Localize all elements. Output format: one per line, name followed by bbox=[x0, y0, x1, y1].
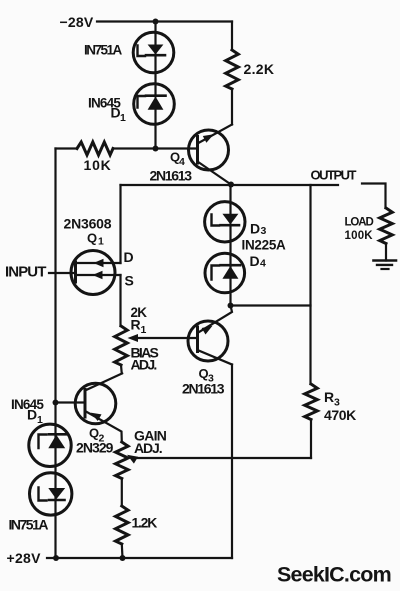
transistor Q1 FET circle bbox=[71, 251, 115, 295]
diode 1N751A zener L mark bbox=[138, 46, 146, 57]
svg-text:INPUT: INPUT bbox=[5, 264, 46, 281]
svg-text:2N3608: 2N3608 bbox=[64, 216, 112, 232]
diode D3 chain wire bbox=[229, 185, 231, 214]
svg-text:Q: Q bbox=[87, 231, 97, 246]
svg-text:3: 3 bbox=[261, 225, 267, 237]
transistor Q2 emitter lead bbox=[85, 411, 122, 442]
svg-text:D: D bbox=[250, 253, 260, 269]
svg-text:IN751A: IN751A bbox=[84, 43, 123, 58]
wire output line bbox=[121, 184, 339, 186]
svg-text:Q: Q bbox=[199, 366, 209, 381]
svg-text:S: S bbox=[125, 273, 134, 289]
transistor Q1 channel top bar / drain bbox=[78, 262, 121, 264]
node output junction dot bbox=[228, 182, 234, 188]
svg-text:100K: 100K bbox=[345, 230, 374, 242]
svg-text:ADJ.: ADJ. bbox=[131, 357, 157, 373]
wire 10K to Q4 base bbox=[113, 147, 198, 149]
wire top chain vertical bbox=[154, 22, 156, 34]
transistor Q1 channel bottom bar / source bbox=[78, 274, 121, 276]
transistor Q4 collector lead bbox=[198, 162, 232, 185]
wire Q2 base bbox=[56, 401, 86, 403]
diode 1N645 D1 symbol triangle up bbox=[148, 97, 164, 110]
node GAIN wiper arrow bbox=[127, 455, 138, 464]
transistor Q3 base bar bbox=[196, 327, 199, 352]
wire between top diodes bbox=[154, 55, 156, 97]
svg-text:1.2K: 1.2K bbox=[132, 515, 158, 531]
wire output down right branch bbox=[309, 185, 311, 384]
svg-text:1: 1 bbox=[98, 236, 104, 248]
svg-text:1: 1 bbox=[37, 414, 43, 426]
wire top chain to base rail bbox=[154, 110, 156, 149]
wire D3 to D4 bbox=[229, 225, 231, 268]
transistor Q1 top arrow bbox=[94, 259, 104, 268]
svg-text:1: 1 bbox=[120, 112, 126, 124]
svg-text:R: R bbox=[324, 389, 334, 405]
svg-text:Q: Q bbox=[89, 426, 99, 441]
svg-text:R: R bbox=[131, 317, 141, 333]
wire source down bbox=[119, 275, 121, 326]
svg-text:10K: 10K bbox=[84, 157, 112, 173]
diode 1N751A wire through bbox=[154, 33, 156, 45]
transistor Q2 base bar bbox=[84, 390, 87, 418]
transistor Q2 emitter arrow bbox=[91, 413, 102, 421]
diode D4 circle bbox=[205, 253, 245, 293]
diode 1N751A cathode bar bbox=[49, 499, 65, 502]
diode 1N751A symbol triangle down bbox=[48, 488, 65, 499]
transistor Q3 emitter lead bbox=[198, 306, 233, 334]
resistor LOAD 100K bbox=[380, 208, 393, 244]
wire load to ground bbox=[385, 244, 387, 261]
svg-text:D: D bbox=[111, 105, 121, 121]
wire GAIN bottom to 1.2K bbox=[121, 479, 123, 507]
svg-text:−28V: −28V bbox=[60, 14, 94, 30]
transistor Q4 emitter arrow bbox=[203, 134, 214, 142]
wire R3 bottom to wiper line bbox=[310, 420, 312, 459]
transistor Q2 circle bbox=[75, 383, 116, 424]
svg-text:2N329: 2N329 bbox=[76, 440, 114, 456]
diode D3 symbol triangle down bbox=[222, 214, 238, 225]
svg-text:D: D bbox=[250, 221, 260, 237]
diode 1N645 D1 (left) circle bbox=[29, 424, 71, 466]
svg-text:ADJ.: ADJ. bbox=[134, 440, 162, 456]
diode D1 cathode bar bbox=[49, 433, 66, 436]
wire 2.2K to Q4 emitter bbox=[231, 89, 233, 125]
diode 1N751A cathode bar bbox=[146, 54, 165, 57]
wire R1 wiper to Q3 base bbox=[138, 337, 198, 339]
wire -28V top rail bbox=[97, 20, 232, 22]
svg-text:SeekIC.com: SeekIC.com bbox=[277, 563, 391, 587]
svg-text:IN225A: IN225A bbox=[242, 238, 287, 253]
svg-text:470K: 470K bbox=[324, 407, 356, 423]
resistor 1.2K bbox=[116, 506, 129, 544]
transistor Q1 bottom arrow bbox=[93, 271, 103, 280]
resistor R3 470K bbox=[305, 384, 318, 420]
diode D3 circle bbox=[205, 202, 245, 242]
diode D4 symbol triangle up bbox=[222, 266, 238, 279]
wire drain up to output line bbox=[119, 185, 121, 263]
diode 1N645 cathode bar bbox=[146, 94, 166, 97]
diode 1N645 D1 (top) circle bbox=[134, 84, 175, 125]
svg-text:2N1613: 2N1613 bbox=[182, 381, 225, 397]
svg-text:LOAD: LOAD bbox=[345, 217, 374, 229]
svg-text:1: 1 bbox=[141, 324, 147, 336]
resistor R1 2K potentiometer bbox=[115, 326, 128, 365]
transistor Q3 collector lead bbox=[198, 350, 233, 365]
wire input bbox=[49, 272, 76, 274]
svg-text:2.2K: 2.2K bbox=[244, 61, 275, 77]
resistor GAIN potentiometer bbox=[116, 442, 129, 479]
transistor Q4 base bar bbox=[196, 137, 199, 164]
diode 1N751A (top) circle bbox=[133, 32, 174, 73]
diode 1N751A zener L mark bbox=[39, 488, 47, 501]
svg-text:4: 4 bbox=[260, 258, 266, 270]
diode 1N645 zener G mark bbox=[138, 96, 146, 108]
transistor Q3 circle bbox=[188, 321, 228, 361]
transistor Q1 gate bar bbox=[74, 262, 77, 282]
diode 1N751A (left) circle bbox=[30, 473, 72, 515]
wire +28V rail bbox=[47, 557, 232, 559]
wire 1.2K to +28V rail bbox=[121, 544, 124, 558]
diode D3 zener L mark bbox=[212, 215, 220, 226]
svg-text:+28V: +28V bbox=[7, 550, 42, 566]
transistor Q4 circle bbox=[189, 130, 229, 170]
diode D4 zener G mark bbox=[212, 266, 220, 280]
diode D4 cathode bar bbox=[221, 264, 241, 267]
transistor Q2 collector lead bbox=[85, 374, 122, 391]
ground bbox=[374, 259, 397, 262]
transistor Q3 emitter arrow bbox=[202, 326, 213, 335]
resistor 2.2K bbox=[231, 22, 233, 51]
svg-text:2N1613: 2N1613 bbox=[150, 168, 193, 184]
diode D1 zener G mark bbox=[39, 435, 47, 449]
svg-text:OUTPUT: OUTPUT bbox=[311, 168, 357, 183]
wire D4 to junction bbox=[229, 279, 231, 306]
diode 1N751A symbol triangle down bbox=[148, 45, 164, 55]
node Q2 base junction dot bbox=[53, 400, 59, 406]
wire GAIN wiper to R3 bbox=[136, 457, 311, 459]
svg-text:D: D bbox=[27, 407, 37, 423]
node junction dot top rail / diode chain bbox=[153, 19, 159, 25]
transistor Q4 emitter lead bbox=[198, 125, 233, 144]
wire Q3 collector down bbox=[231, 365, 233, 559]
svg-text:D: D bbox=[124, 249, 134, 265]
svg-text:IN751A: IN751A bbox=[9, 517, 49, 533]
diode D3 cathode bar bbox=[221, 224, 240, 227]
node D4 junction dot bbox=[228, 303, 234, 309]
wire output to load segment bbox=[362, 184, 386, 209]
svg-text:4: 4 bbox=[179, 156, 185, 168]
node +28V / diode rail dot bbox=[53, 555, 59, 561]
wire left rail corner bbox=[54, 149, 56, 559]
node junction dot diode chain / base wire bbox=[153, 146, 159, 152]
diode D1 symbol triangle up bbox=[48, 435, 65, 448]
node R1 wiper arrow bbox=[128, 334, 139, 342]
resistor 10K bbox=[56, 147, 78, 149]
node 1.2K junction dot bbox=[120, 555, 126, 561]
wire R1 bottom to Q2 collector bbox=[121, 365, 122, 374]
wire D4 junction to right branch bbox=[231, 304, 311, 306]
